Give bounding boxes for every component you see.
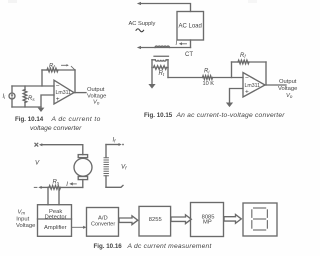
resistor Rs2 [49,186,61,190]
svg-text:Rf: Rf [49,63,55,69]
CT core [154,55,169,57]
wire bottom [12,106,41,108]
svg-text:Fig. 10.15: Fig. 10.15 [144,112,173,119]
svg-text:8255: 8255 [149,217,162,223]
wire armature bottom [82,180,84,188]
supply sine [136,29,144,32]
svg-text:I: I [176,41,178,47]
svg-text:CT: CT [185,52,193,58]
svg-text:AC Supply: AC Supply [129,21,156,27]
current source Ii [9,93,15,99]
svg-text:AC Load: AC Load [179,24,202,30]
wire output [74,92,86,94]
bus arrow 1 [119,216,138,225]
wire feedback right [265,62,267,85]
seven segment 8 [254,207,266,209]
wire bottom left [41,186,49,188]
ground [226,103,233,108]
tap wires [48,187,59,204]
svg-text:MP: MP [203,220,212,226]
svg-text:Input: Input [16,216,29,222]
wire secondary right [167,60,169,78]
wire source top [11,86,13,93]
block 8085 MP [191,203,224,237]
resistor Rt [154,66,167,70]
wire noninverting input [41,95,54,107]
resistor Rf2 [232,61,239,63]
svg-text:A dc current to: A dc current to [51,116,101,123]
wire CT main [140,47,191,49]
svg-text:Voltage: Voltage [278,86,297,92]
svg-text:Fig. 10.16: Fig. 10.16 [94,243,123,250]
wire feedback left [41,70,43,86]
resistor Rf [42,69,47,71]
svg-text:Vo: Vo [93,100,100,106]
arrow I on wire [182,43,187,45]
svg-text:Rs: Rs [53,179,60,185]
svg-text:Output: Output [87,87,105,93]
block A/D converter [87,208,119,237]
wire load bottom [190,40,192,48]
svg-text:Ii: Ii [3,94,7,100]
ground [148,84,155,89]
svg-text:Lm311: Lm311 [56,90,72,96]
svg-text:A dc current measurement: A dc current measurement [127,243,213,250]
svg-text:Output: Output [279,79,297,85]
svg-text:Vf: Vf [121,164,127,171]
terminal mark top [35,143,38,146]
svg-text:V: V [35,160,40,167]
svg-text:Fig. 10.14: Fig. 10.14 [15,116,44,123]
svg-text:Ri: Ri [204,69,210,75]
bus arrow 3 [224,215,241,224]
CT secondary winding [152,59,155,61]
wire feedback right [74,70,76,93]
svg-text:Rf: Rf [240,53,246,59]
scan artifact mark [8,0,17,3]
wire inverting input [12,85,54,87]
field wire top [106,144,119,146]
corner current tick [71,66,75,70]
svg-text:Detector: Detector [45,214,67,220]
ground [38,108,45,112]
block 8255 [139,206,171,236]
wire feedback top [249,61,266,63]
arrow amp to A/D [72,226,84,228]
svg-text:Voltage: Voltage [87,93,106,99]
AC Load box [177,12,204,41]
svg-text:10 K: 10 K [203,81,215,87]
wire to ground [151,68,153,85]
arrow If [62,64,68,66]
svg-text:Voltage: Voltage [16,223,35,229]
svg-text:Vo: Vo [286,93,293,99]
resistor Rs [23,90,27,103]
CT primary winding [155,46,169,47]
wire secondary left [151,60,153,68]
wire supply top [140,4,191,12]
svg-text:Rs: Rs [28,96,35,102]
bus arrow 2 [171,215,191,224]
svg-text:voltage converter: voltage converter [30,125,82,132]
block display [243,203,277,236]
wire bottom right [61,186,83,188]
wire feedback top [58,69,75,71]
svg-text:An ac current-to-voltage conve: An ac current-to-voltage converter [176,112,286,119]
svg-text:+: + [56,96,60,103]
svg-text:−: − [56,83,60,90]
wire source bottom [11,99,13,107]
wire armature top [42,145,83,155]
motor armature [78,155,87,158]
wire feedback left [231,62,233,78]
field winding [105,145,107,188]
svg-text:Vm: Vm [18,210,26,216]
field wire bottom [106,185,123,187]
wire to Ri [168,77,203,79]
resistor Ri [203,76,213,80]
block peak detector/amplifier [38,205,72,237]
terminal mark bottom [34,186,37,188]
svg-text:Rt: Rt [159,71,165,77]
arrow I2 [73,183,77,185]
svg-text:Converter: Converter [91,221,115,227]
op-amp U2 Lm311 [243,73,265,98]
wire output [265,84,286,86]
svg-text:−: − [245,75,249,82]
wire noninverting + ground stem [230,89,244,103]
scan artifact mark 2 [248,0,257,3]
op-amp U1 Lm311 [54,80,74,104]
svg-text:Amplifier: Amplifier [44,225,67,231]
svg-text:If: If [113,137,117,143]
svg-text:Lm311: Lm311 [245,83,261,89]
wire Ri to opamp [213,77,244,79]
svg-text:+: + [245,89,249,96]
